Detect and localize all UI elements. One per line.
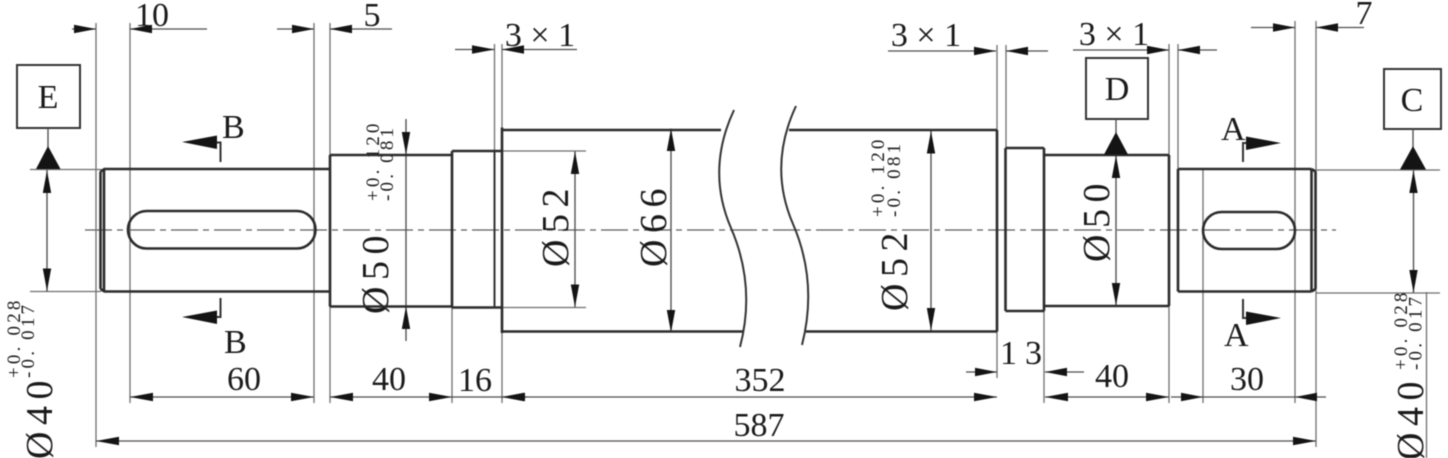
svg-text:Ø66: Ø66 <box>633 182 675 267</box>
extension line x=1295 (keyway R right, dims 7/30) <box>1294 21 1296 403</box>
break wavy line 2 <box>781 106 808 345</box>
extension line x=1203 (keyway R left, dim 30) <box>1202 170 1204 403</box>
svg-text:E: E <box>38 79 59 116</box>
dimension diameter 50 left vertical <box>355 119 410 341</box>
dimension 30 <box>1171 361 1326 401</box>
svg-text:30: 30 <box>1230 361 1264 398</box>
svg-text:Ø52: Ø52 <box>874 226 916 311</box>
extension line x=314 (keyway right, dims 5/60) <box>313 23 315 403</box>
svg-text:40: 40 <box>372 361 406 398</box>
svg-text:Ø50: Ø50 <box>355 229 397 314</box>
svg-text:B: B <box>222 109 245 146</box>
svg-text:60: 60 <box>227 361 261 398</box>
extension line x=130 (keyway left, dims 10/60) <box>129 23 131 403</box>
keyway left <box>128 211 316 249</box>
svg-text:5: 5 <box>364 0 381 34</box>
dimension 16 <box>452 362 527 401</box>
dimension 5 <box>277 0 392 34</box>
dimension 3x1 (middle groove) <box>888 17 1048 55</box>
svg-text:3 × 1: 3 × 1 <box>891 17 961 54</box>
extension line x=1178 (groove right end) <box>1177 44 1179 169</box>
svg-text:-0. 017: -0. 017 <box>1406 294 1427 370</box>
section mark A top <box>1221 111 1281 162</box>
datum E box <box>17 65 80 169</box>
extension line x=997 (dims 3x1/352/13) <box>996 45 998 378</box>
svg-text:-0. 081: -0. 081 <box>377 125 398 201</box>
dimension 13 <box>966 335 1084 376</box>
svg-text:Ø40: Ø40 <box>19 374 61 458</box>
dimension 60 <box>130 361 314 401</box>
extension line x=452 (dims 40/16) <box>451 151 453 403</box>
extension lines left diameter 40 <box>30 169 101 171</box>
datum C box <box>1384 69 1441 170</box>
svg-text:3 × 1: 3 × 1 <box>1079 16 1149 53</box>
dimension diameter 52 middle vertical <box>535 152 579 308</box>
dimension 40 (left) <box>330 361 452 401</box>
dimension diameter 40 right vertical <box>1390 170 1432 458</box>
dimension diameter 66 vertical <box>633 129 675 333</box>
extension line x=1316 (right end, dims 7/587) <box>1315 21 1317 447</box>
shaft section diameter 66 / 52 (352 long, with break) <box>502 128 997 334</box>
svg-text:352: 352 <box>735 362 786 399</box>
svg-text:C: C <box>1401 82 1424 119</box>
extension line x=1169 (dims 3x1/40) <box>1168 44 1170 403</box>
svg-text:Ø50: Ø50 <box>1076 177 1118 262</box>
svg-text:B: B <box>224 324 247 361</box>
svg-text:-0. 017: -0. 017 <box>18 302 39 378</box>
svg-text:-0. 081: -0. 081 <box>884 141 905 217</box>
centerline <box>85 229 1336 231</box>
dimension diameter 50 right vertical <box>1076 155 1120 306</box>
svg-text:16: 16 <box>458 362 492 399</box>
dimension 3x1 (right groove) <box>1073 16 1217 54</box>
svg-text:13: 13 <box>1000 335 1050 372</box>
dimension 587 <box>96 407 1316 445</box>
shaft section diameter 40 left <box>101 169 331 292</box>
break wavy line 1 <box>719 110 746 347</box>
svg-text:40: 40 <box>1095 358 1129 395</box>
svg-text:D: D <box>1105 71 1130 108</box>
svg-text:Ø52: Ø52 <box>535 182 577 267</box>
keyway right <box>1203 212 1295 249</box>
shaft section diameter 50 right <box>1044 155 1169 306</box>
svg-text:587: 587 <box>734 407 785 444</box>
svg-text:A: A <box>1221 111 1246 148</box>
dimension diameter 40 left vertical <box>4 170 61 458</box>
shaft groove band (13) <box>1006 148 1045 311</box>
shaft section diameter 50 left <box>330 155 452 307</box>
svg-text:10: 10 <box>135 0 169 34</box>
extension lines diameter 52 middle <box>502 150 586 152</box>
svg-text:7: 7 <box>1356 0 1373 32</box>
dimension 7 <box>1251 0 1373 32</box>
extension line x=1044 (dims 13/40) <box>1043 311 1045 403</box>
dimension 3x1 (left groove) <box>455 17 577 54</box>
datum D box <box>1086 58 1148 155</box>
dimension diameter 52 right vertical <box>868 131 935 331</box>
extension lines right diameter 40 <box>1316 169 1440 171</box>
section mark B top <box>182 109 245 162</box>
svg-text:Ø40: Ø40 <box>1390 375 1432 458</box>
section mark A bottom <box>1224 299 1281 354</box>
svg-text:A: A <box>1224 317 1249 354</box>
dimension 10 <box>72 0 207 34</box>
section mark B bottom <box>182 298 247 361</box>
shaft section diameter 52 (16 long) <box>452 151 502 308</box>
extension line x=494.5 (groove 3x1 left) <box>494 44 496 151</box>
dimension 40 (right) <box>1045 358 1169 401</box>
extension line x=330 (shoulder, dims 5/40) <box>329 23 331 403</box>
dimension 352 <box>502 362 997 401</box>
shaft section diameter 40 right <box>1178 169 1316 292</box>
drawing frame edge right <box>1426 292 1428 458</box>
svg-text:3 × 1: 3 × 1 <box>505 17 575 54</box>
extension line x=1006 (groove 3x1 right side) <box>1005 45 1007 148</box>
extension line x=502 (dims 3x1/16/352) <box>501 44 503 403</box>
extension line x=96 (left end, dims 10/587) <box>95 23 97 447</box>
